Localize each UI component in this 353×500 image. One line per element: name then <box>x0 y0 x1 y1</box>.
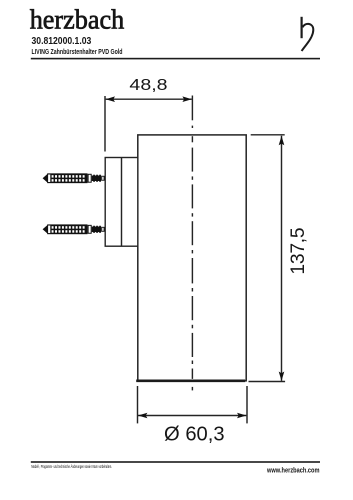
svg-text:LIVING Zahnbürstenhalter PVD G: LIVING Zahnbürstenhalter PVD Gold <box>32 49 123 56</box>
wall bracket divider line <box>121 158 123 247</box>
dimension 48,8 arrow right <box>182 96 191 102</box>
dimension 48,8 arrow left <box>106 96 115 102</box>
dimension 137,5 extension line top <box>251 134 285 136</box>
screw S1 wall anchor <box>43 173 104 183</box>
dimension Ø 60,3 arrow left <box>138 413 147 419</box>
svg-text:Ø 60,3: Ø 60,3 <box>164 423 225 445</box>
S1 anchor thread cells <box>52 175 54 177</box>
S1 collar <box>88 174 91 182</box>
S1 neck band <box>48 175 50 183</box>
wall bracket plate <box>105 158 138 247</box>
svg-text:Modell-, Programm- und technis: Modell-, Programm- und technische Änderu… <box>31 463 112 469</box>
dimension 48,8 extension line left <box>104 96 106 152</box>
centerline axis dash-dot <box>191 126 193 391</box>
svg-text:48,8: 48,8 <box>129 77 167 94</box>
dimension 137,5 arrow down <box>279 372 285 381</box>
S1 screw tip <box>43 174 48 183</box>
screw S2 wall anchor <box>43 224 104 234</box>
header rule <box>31 58 320 60</box>
S1 threaded stud <box>92 176 102 182</box>
dimension 137,5 dimension line <box>281 136 283 381</box>
dimension 137,5 extension line bottom <box>249 381 286 383</box>
svg-text:30.812000.1.03: 30.812000.1.03 <box>32 36 92 47</box>
S1 stud end cap <box>102 176 104 180</box>
dimension 48,8 dimension line <box>106 98 192 100</box>
cylinder body outline <box>138 135 246 381</box>
dimension Ø 60,3 extension line right <box>246 386 248 423</box>
dimension 137,5 arrow up <box>279 136 285 145</box>
footer rule <box>31 461 320 463</box>
dimension Ø 60,3 arrow right <box>237 413 246 419</box>
svg-text:www.herzbach.com: www.herzbach.com <box>266 465 319 474</box>
herzbach logo mark stylized h <box>302 17 314 51</box>
svg-text:137,5: 137,5 <box>288 227 309 274</box>
dimension 48,8 extension line right <box>191 96 193 121</box>
svg-text:herzbach: herzbach <box>30 4 125 35</box>
cylinder bottom rim thick edge <box>136 379 245 382</box>
dimension Ø 60,3 dimension line <box>138 415 246 417</box>
S1 anchor body <box>47 173 87 183</box>
dimension Ø 60,3 extension line left <box>137 386 139 423</box>
